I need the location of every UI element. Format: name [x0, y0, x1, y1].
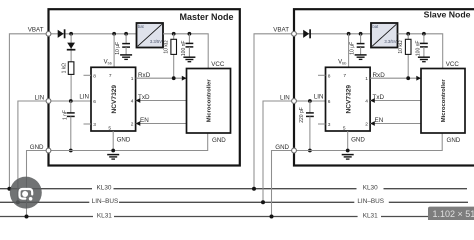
slave junction Vbb: [347, 32, 351, 36]
svg-text:GND: GND: [30, 144, 44, 151]
junction slave VBAT / KL30: [252, 187, 256, 191]
svg-text:100 nF: 100 nF: [415, 41, 421, 57]
slave ground 10uF: [355, 54, 367, 56]
junction master GND / KL31: [25, 215, 29, 219]
slave junction LIN cap gnd: [308, 149, 312, 153]
svg-text:3: 3: [93, 122, 96, 128]
junction master LIN / LIN-BUS: [16, 200, 20, 204]
master pin 3 stub: [84, 123, 92, 125]
svg-text:8: 8: [93, 73, 96, 79]
master junction 10k top: [172, 32, 176, 36]
slave pin 8 stub: [318, 74, 326, 76]
master wire 100nF bottom: [188, 47, 190, 57]
slave wire 100nF top: [423, 34, 425, 44]
svg-text:KL31: KL31: [363, 212, 378, 219]
master voltage regulator block: [137, 23, 164, 48]
svg-text:KL30: KL30: [97, 185, 112, 192]
junction slave LIN / LIN-BUS: [261, 200, 265, 204]
slave wire 10k pullup: [407, 34, 409, 78]
slave ground symbol U1: [342, 154, 354, 156]
master wire LIN cap top: [70, 101, 72, 113]
svg-text:KL31: KL31: [97, 212, 112, 219]
master EN arrow: [136, 121, 141, 126]
master GND rail wire: [49, 133, 208, 151]
svg-text:GND: GND: [351, 136, 365, 143]
svg-text:TxD: TxD: [373, 94, 385, 101]
svg-text:Microcontroller: Microcontroller: [207, 79, 213, 123]
svg-text:NCV7329: NCV7329: [346, 85, 353, 114]
slave LIN riser wire to LIN-BUS: [263, 101, 294, 202]
slave EN arrow: [370, 121, 375, 126]
master RxD junction: [172, 76, 176, 80]
svg-text:GND: GND: [275, 144, 289, 151]
svg-text:LIN: LIN: [35, 95, 45, 102]
master junction pullup branch: [69, 32, 73, 36]
slave TxD arrow: [370, 98, 375, 103]
image size chip: [428, 207, 474, 220]
master junction LIN cap gnd: [69, 149, 73, 153]
master ground 10uF: [120, 54, 132, 56]
svg-text:TxD: TxD: [138, 94, 150, 101]
master ground 100nF: [183, 56, 195, 58]
master GND riser wire to KL31: [27, 151, 49, 217]
master pullup diode: [67, 43, 75, 49]
svg-text:bat: bat: [372, 24, 379, 29]
master capacitor 10uF: [122, 43, 130, 45]
junction master VBAT / KL30: [7, 187, 11, 191]
svg-text:KL30: KL30: [363, 185, 378, 192]
slave resistor 10 kOhm: [405, 39, 411, 54]
slave RxD arrow: [416, 76, 421, 81]
master U1 GND pin wire: [112, 131, 114, 151]
svg-text:4: 4: [131, 99, 134, 105]
svg-text:GND: GND: [117, 136, 131, 143]
slave GND rail wire: [294, 133, 442, 151]
svg-text:1 kΩ: 1 kΩ: [62, 63, 68, 74]
master EN wire: [136, 123, 187, 125]
svg-text:bat: bat: [138, 24, 145, 29]
svg-text:3: 3: [328, 122, 331, 128]
slave voltage regulator block: [371, 23, 398, 48]
slave capacitor 220 pF: [306, 112, 314, 114]
slave junction 10uF: [359, 32, 363, 36]
master outer box: [49, 9, 240, 165]
lens icon dot: [29, 197, 33, 201]
slave wire 100nF bottom: [423, 47, 425, 57]
lens icon center circle: [22, 191, 28, 197]
bus line KL31: [0, 216, 93, 218]
svg-text:5: 5: [343, 125, 346, 131]
svg-text:LIN: LIN: [79, 94, 89, 101]
master U1 GND junction: [111, 149, 115, 153]
slave junction LIN cap: [308, 99, 312, 103]
svg-text:VCC: VCC: [446, 61, 460, 68]
slave TxD wire: [370, 100, 421, 102]
slave junction 100nF top: [422, 32, 426, 36]
svg-text:Master Node: Master Node: [179, 12, 233, 22]
svg-text:220 pF: 220 pF: [299, 107, 305, 123]
svg-text:EN: EN: [375, 117, 384, 124]
slave reverse protection diode: [303, 30, 309, 38]
svg-text:EN: EN: [140, 117, 149, 124]
svg-text:VBAT: VBAT: [28, 26, 44, 33]
slave U1 GND pin wire: [347, 131, 349, 151]
master wire 10k pullup: [173, 34, 175, 78]
svg-text:1.102 × 516: 1.102 × 516: [433, 209, 474, 219]
master junction 10uF: [124, 32, 128, 36]
svg-text:VCC: VCC: [211, 61, 225, 68]
slave pin 3 stub: [318, 123, 326, 125]
master LIN riser wire to LIN-BUS: [18, 101, 49, 202]
slave wire Vbb to pin 7: [348, 34, 350, 68]
svg-text:VBAT: VBAT: [273, 26, 289, 33]
master terminal LIN: [46, 99, 51, 104]
svg-text:1 nF: 1 nF: [62, 110, 68, 120]
master resistor 1 kOhm: [68, 62, 74, 75]
slave EN wire: [370, 123, 421, 125]
svg-text:GND: GND: [212, 137, 226, 144]
master wire VBAT to regulator input: [49, 33, 137, 35]
master terminal VBAT: [46, 31, 51, 36]
master terminal GND: [46, 148, 51, 153]
svg-text:10 kΩ: 10 kΩ: [164, 40, 170, 53]
slave transceiver U1 NCV7329: [326, 67, 371, 131]
master capacitor 100nF: [186, 42, 194, 44]
master microcontroller U2: [187, 69, 231, 134]
svg-text:6: 6: [93, 99, 96, 105]
lens overlay circle: [10, 177, 42, 209]
svg-text:RxD: RxD: [138, 72, 151, 79]
master RxD arrow: [182, 76, 187, 81]
master junction LIN cap: [69, 99, 73, 103]
master pin 8 stub: [84, 74, 92, 76]
svg-text:3.3/5V: 3.3/5V: [384, 39, 396, 44]
slave outer box: [294, 9, 474, 165]
svg-text:4: 4: [365, 99, 368, 105]
slave wire LIN cap top: [309, 101, 311, 113]
slave terminal GND: [292, 148, 297, 153]
svg-text:LIN: LIN: [314, 94, 324, 101]
svg-text:Microcontroller: Microcontroller: [441, 79, 447, 123]
svg-text:10 µF: 10 µF: [115, 42, 121, 55]
slave capacitor 100nF: [420, 42, 428, 44]
master RxD wire: [136, 77, 187, 79]
slave RxD wire: [370, 77, 421, 79]
svg-text:5: 5: [108, 125, 111, 131]
svg-text:6: 6: [328, 99, 331, 105]
slave RxD junction: [406, 76, 410, 80]
lens icon frame: [20, 189, 33, 199]
master capacitor 1 nF: [67, 112, 75, 114]
svg-text:10 µF: 10 µF: [349, 42, 355, 55]
slave terminal LIN: [292, 99, 297, 104]
svg-text:8: 8: [328, 73, 331, 79]
svg-text:NCV7329: NCV7329: [111, 85, 118, 114]
slave terminal VBAT: [292, 31, 297, 36]
slave wire LIN cap bottom: [309, 116, 311, 150]
svg-text:2: 2: [365, 122, 368, 128]
svg-text:RxD: RxD: [373, 72, 386, 79]
slave GND riser wire to KL31: [272, 151, 295, 217]
master junction 100nF top: [188, 32, 192, 36]
master junction Vbb: [112, 32, 116, 36]
svg-text:Slave Node: Slave Node: [424, 9, 471, 19]
master wire LIN to pin 6: [49, 100, 92, 102]
master reverse protection diode: [58, 30, 64, 38]
slave microcontroller U2: [421, 69, 465, 134]
master ground symbol U1: [107, 154, 119, 156]
svg-text:LIN: LIN: [280, 95, 290, 102]
master wire Vbb to pin 7: [113, 34, 115, 68]
master VCC rail wire: [163, 34, 208, 69]
bus line KL30: [0, 188, 92, 190]
slave wire 10uF bottom: [360, 47, 362, 55]
svg-text:1: 1: [131, 76, 134, 82]
slave wire 10uF top: [360, 34, 362, 44]
slave wire VBAT to regulator input: [294, 33, 371, 35]
master wire pullup branch: [70, 34, 72, 101]
master transceiver U1 NCV7329: [91, 67, 136, 131]
master TxD wire: [136, 100, 187, 102]
svg-text:3.3/5V: 3.3/5V: [150, 39, 162, 44]
junction slave GND / KL31: [270, 215, 274, 219]
svg-text:7: 7: [109, 73, 112, 79]
slave wire LIN to pin 6: [294, 100, 326, 102]
master wire 100nF top: [188, 34, 190, 44]
svg-text:10 kΩ: 10 kΩ: [398, 40, 404, 53]
svg-text:2: 2: [131, 122, 134, 128]
bus line LIN-BUS: [0, 201, 89, 203]
svg-text:100 nF: 100 nF: [181, 41, 187, 57]
svg-text:1: 1: [365, 76, 368, 82]
svg-text:GND: GND: [447, 137, 461, 144]
slave regulator diagonal: [372, 24, 396, 46]
slave capacitor 10uF: [357, 43, 365, 45]
master wire 10uF bottom: [125, 47, 127, 55]
master regulator diagonal: [138, 24, 162, 46]
slave VCC rail wire: [398, 34, 443, 69]
svg-text:LIN–BUS: LIN–BUS: [92, 198, 119, 205]
master wire LIN cap bottom: [70, 116, 72, 150]
master TxD arrow: [136, 98, 141, 103]
slave junction 10k top: [406, 32, 410, 36]
master wire 10uF top: [125, 34, 127, 44]
master VBAT riser wire to KL30: [9, 34, 48, 189]
slave ground 100nF: [418, 56, 430, 58]
slave U1 GND junction: [346, 149, 350, 153]
slave VBAT riser wire to KL30: [254, 34, 294, 189]
svg-text:LIN–BUS: LIN–BUS: [357, 198, 384, 205]
master resistor 10 kOhm: [171, 39, 177, 54]
svg-text:7: 7: [343, 73, 346, 79]
